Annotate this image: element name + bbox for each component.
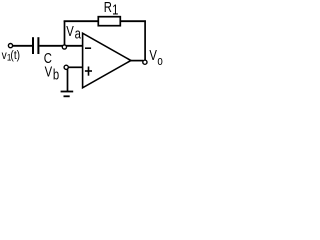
svg-text:R: R <box>104 0 112 15</box>
wire vertical from node A up to feedback <box>64 21 66 46</box>
wire top feedback left segment <box>64 20 99 22</box>
label Vb <box>45 63 60 82</box>
wire op-amp output <box>131 60 143 62</box>
node Vo output terminal <box>143 60 147 64</box>
ground <box>61 91 74 93</box>
op-amp U1 non-inverting input marker (plus) <box>85 70 92 72</box>
capacitor C left plate <box>32 37 34 54</box>
svg-text:(t): (t) <box>10 49 20 62</box>
wire top feedback right segment <box>120 20 146 22</box>
wire Vb node to non-inverting input <box>68 66 82 68</box>
label Va <box>66 23 81 42</box>
svg-text:b: b <box>53 66 59 83</box>
label R1 <box>104 0 119 18</box>
svg-text:1: 1 <box>112 1 118 18</box>
svg-text:V: V <box>45 63 53 80</box>
label v1(t) <box>2 49 21 62</box>
node B Vb terminal <box>64 65 68 69</box>
svg-text:a: a <box>75 25 82 42</box>
svg-text:o: o <box>157 55 162 68</box>
svg-text:V: V <box>66 23 74 40</box>
wire capacitor to op-amp inverting input <box>39 45 82 47</box>
node A junction <box>62 45 66 49</box>
svg-text:V: V <box>149 47 157 64</box>
op-amp U1 inverting input marker (minus) <box>85 47 91 49</box>
resistor R1 <box>98 17 120 26</box>
label C <box>44 50 52 67</box>
capacitor C right plate <box>37 37 39 54</box>
node vi input terminal <box>8 44 12 48</box>
wire input to capacitor <box>13 45 33 47</box>
wire ground stem <box>67 69 69 91</box>
wire vertical down to output node <box>144 20 146 60</box>
label Vo <box>149 47 162 69</box>
op-amp U1 <box>83 33 131 88</box>
